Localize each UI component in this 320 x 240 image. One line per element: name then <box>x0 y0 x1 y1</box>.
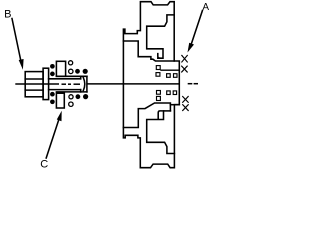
bottom-left filled dots <box>50 92 55 104</box>
drawbar flange bar <box>43 68 49 99</box>
svg-text:C: C <box>40 159 48 170</box>
pin shelf line top <box>161 69 179 71</box>
rod collar <box>56 76 87 92</box>
top-left filled dots <box>50 64 55 76</box>
svg-text:A: A <box>202 2 209 13</box>
bottom plate <box>56 93 64 108</box>
centerline <box>15 83 198 86</box>
label C arrow <box>46 111 62 158</box>
top open circles <box>69 61 74 74</box>
squares bottom group <box>157 91 177 101</box>
X mark 2 <box>182 66 188 72</box>
bottom step line <box>170 104 179 106</box>
X mark 3 <box>183 97 189 103</box>
body inner bore top <box>147 15 175 58</box>
body face profile top <box>123 41 174 61</box>
body face profile bottom <box>123 103 170 128</box>
spindle body outline <box>123 2 179 168</box>
retaining box top <box>158 54 160 59</box>
body inner bore bottom <box>147 111 175 154</box>
drawbar threaded cap <box>25 72 43 97</box>
X mark 1 <box>182 55 188 62</box>
top plate <box>56 61 65 76</box>
label B arrow <box>12 19 24 70</box>
svg-text:B: B <box>4 9 11 21</box>
label A arrow <box>188 11 203 53</box>
drawbar rod <box>49 76 81 92</box>
bottom open circles <box>69 95 73 107</box>
box top extension bottom half <box>164 110 170 112</box>
X mark 4 <box>183 105 189 111</box>
top filled dots right <box>75 69 88 74</box>
bottom filled dots right <box>76 94 89 99</box>
squares top group <box>156 66 177 78</box>
